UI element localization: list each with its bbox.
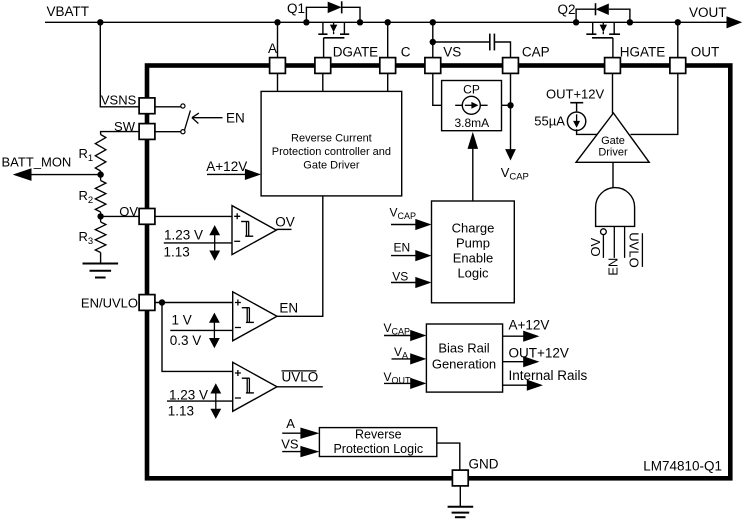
wire rail to pin OUT bbox=[677, 22, 679, 58]
pin HGATE bbox=[605, 58, 621, 74]
wire gate driver to AND gate bbox=[612, 162, 614, 187]
block Bias Rail Generation bbox=[426, 324, 502, 392]
svg-text:VS: VS bbox=[281, 437, 299, 452]
switch EN upper contact bbox=[181, 104, 185, 108]
pin GND bbox=[452, 470, 468, 486]
pin VSNS bbox=[139, 98, 155, 114]
wire UVLO threshold input bbox=[167, 400, 233, 402]
wire pin GND to ground bbox=[459, 486, 461, 507]
pin A bbox=[270, 58, 286, 74]
svg-text:VBATT: VBATT bbox=[47, 4, 90, 19]
pin CAP bbox=[503, 58, 519, 74]
wire rail to pin C bbox=[387, 22, 389, 58]
svg-text:Reverse Current: Reverse Current bbox=[291, 133, 372, 145]
comparator EN bbox=[233, 292, 277, 341]
pin OUT bbox=[670, 58, 686, 74]
wire CPEL to CP (up arrow) bbox=[472, 149, 474, 202]
wire RPL to pin GND bbox=[437, 443, 460, 470]
svg-text:OUT+12V: OUT+12V bbox=[509, 345, 569, 360]
svg-text:3.8mA: 3.8mA bbox=[454, 116, 489, 130]
svg-text:BATT_MON: BATT_MON bbox=[2, 154, 72, 169]
svg-text:Logic: Logic bbox=[457, 265, 489, 280]
svg-text:A+12V: A+12V bbox=[206, 159, 247, 174]
junction R2/R3 (OV tap) bbox=[97, 213, 103, 219]
wire pin DGATE to RCP bbox=[322, 73, 324, 91]
svg-text:OUT+12V: OUT+12V bbox=[546, 87, 604, 102]
svg-text:1.23 V: 1.23 V bbox=[164, 228, 203, 243]
svg-text:55µA: 55µA bbox=[534, 114, 565, 129]
svg-text:C: C bbox=[401, 44, 411, 59]
pin C bbox=[380, 58, 396, 74]
svg-text:CP: CP bbox=[463, 83, 480, 97]
wire VBATT to VSNS bbox=[100, 22, 139, 107]
threshold arrows OV bbox=[214, 235, 216, 251]
wire AND input OV bbox=[602, 235, 604, 258]
svg-text:UVLO: UVLO bbox=[627, 232, 642, 267]
svg-text:OUT: OUT bbox=[691, 44, 720, 59]
junction OUT pin branch bbox=[675, 19, 681, 25]
junction CAP/CP output bbox=[507, 102, 513, 108]
transistor Q2 bbox=[558, 2, 634, 58]
block Reverse Protection Logic bbox=[319, 427, 436, 456]
pin EN/UVLO bbox=[139, 295, 155, 311]
svg-text:VS: VS bbox=[443, 44, 461, 59]
svg-text:OV: OV bbox=[119, 204, 138, 219]
svg-text:Charge: Charge bbox=[452, 220, 495, 235]
svg-text:A+12V: A+12V bbox=[509, 317, 550, 332]
junction EN/UVLO branch bbox=[159, 299, 165, 305]
svg-text:Protection controller and: Protection controller and bbox=[272, 146, 391, 158]
wire current source to gate driver bbox=[577, 129, 598, 134]
svg-text:EN: EN bbox=[605, 258, 620, 276]
wire OV threshold input bbox=[164, 242, 232, 244]
svg-text:1.13: 1.13 bbox=[164, 244, 190, 259]
wire pin A to RCP bbox=[277, 73, 279, 91]
amplifier Gate Driver bbox=[576, 113, 649, 162]
IC boundary LM74810-Q1 bbox=[147, 66, 730, 479]
pin SW bbox=[139, 124, 155, 140]
wire pin CAP down (VCAP) bbox=[510, 73, 512, 150]
comparator OV bbox=[232, 206, 276, 255]
svg-text:GND: GND bbox=[469, 456, 499, 471]
block U1 Reverse Current Protection controller and Gate Driver bbox=[261, 91, 402, 195]
wire pin OUT to gate driver bbox=[631, 73, 678, 134]
svg-text:EN: EN bbox=[279, 300, 298, 315]
gate AND (driver enable) bbox=[596, 188, 635, 227]
svg-text:Generation: Generation bbox=[432, 357, 496, 372]
transistor Q1 bbox=[287, 1, 363, 58]
wire CP output to CAP line bbox=[502, 104, 511, 106]
svg-text:Q2: Q2 bbox=[558, 2, 576, 17]
block CP charge pump 3.8mA bbox=[442, 81, 502, 131]
svg-text:Internal Rails: Internal Rails bbox=[509, 368, 588, 383]
switch EN lower contact bbox=[181, 130, 185, 134]
junction A pin branch bbox=[274, 19, 280, 25]
svg-text:Q1: Q1 bbox=[287, 1, 305, 16]
wire AND input UVLO bbox=[624, 226, 626, 258]
svg-text:OV: OV bbox=[588, 237, 603, 256]
svg-text:VOUT: VOUT bbox=[689, 5, 727, 20]
resistor R3 bbox=[95, 222, 106, 253]
svg-text:CAP: CAP bbox=[522, 44, 550, 59]
resistor R1 bbox=[95, 135, 106, 172]
wire pin EN/UVLO to EN comparator bbox=[155, 302, 233, 304]
node VCAP arrow bbox=[505, 149, 516, 160]
wire rail to pin A bbox=[277, 22, 279, 58]
wire EN comparator output to RCP bbox=[277, 196, 323, 316]
wire VSNS to switch contact bbox=[155, 106, 181, 108]
comparator UVLO bbox=[233, 362, 277, 411]
svg-text:Bias Rail: Bias Rail bbox=[438, 341, 489, 356]
pin DGATE bbox=[315, 58, 331, 74]
svg-text:EN: EN bbox=[394, 240, 411, 254]
wire VBATT rail bbox=[45, 21, 727, 23]
wire pin HGATE to gate driver bbox=[612, 73, 614, 114]
bubble OV input bbox=[601, 229, 607, 235]
block Charge Pump Enable Logic bbox=[432, 201, 515, 303]
junction C pin branch bbox=[385, 19, 391, 25]
wire VOUT arrow bbox=[727, 16, 743, 28]
pin VS bbox=[425, 58, 441, 74]
wire branch to UVLO comparator bbox=[162, 303, 233, 372]
wire EN threshold input bbox=[170, 329, 232, 331]
wire pin C to RCP bbox=[387, 73, 389, 91]
svg-text:EN/UVLO: EN/UVLO bbox=[81, 295, 138, 310]
svg-text:Driver: Driver bbox=[598, 146, 628, 158]
pin OV bbox=[139, 209, 155, 225]
svg-text:0.3 V: 0.3 V bbox=[170, 333, 202, 348]
wire pin OV to comparator bbox=[155, 215, 233, 217]
svg-text:SW: SW bbox=[114, 119, 136, 134]
EN switch label arrow bbox=[192, 113, 223, 123]
capacitor C1 (VS to CAP) bbox=[489, 34, 491, 51]
svg-text:1 V: 1 V bbox=[172, 313, 192, 328]
svg-text:VS: VS bbox=[392, 269, 408, 283]
wire OV comparator output bbox=[276, 228, 291, 230]
svg-text:1.23 V: 1.23 V bbox=[169, 388, 208, 403]
svg-text:HGATE: HGATE bbox=[620, 44, 666, 59]
svg-text:OV: OV bbox=[275, 214, 295, 229]
threshold arrows EN bbox=[213, 322, 215, 338]
ground (divider) bbox=[83, 263, 119, 265]
svg-text:DGATE: DGATE bbox=[333, 44, 379, 59]
svg-text:Pump: Pump bbox=[456, 235, 490, 250]
wire tap to pin OV bbox=[101, 215, 140, 217]
svg-text:Reverse: Reverse bbox=[355, 427, 402, 441]
wire capacitor to pin CAP bbox=[494, 42, 510, 58]
switch lever bbox=[185, 110, 191, 129]
wire rail to pin VS bbox=[432, 22, 434, 58]
wire BATT_MON arrow bbox=[31, 174, 101, 176]
svg-text:LM74810-Q1: LM74810-Q1 bbox=[643, 459, 722, 474]
threshold arrows UVLO bbox=[215, 393, 217, 409]
ground (GND) bbox=[448, 506, 474, 508]
svg-text:A: A bbox=[286, 416, 295, 431]
wire VS branch to capacitor bbox=[430, 39, 436, 45]
svg-text:Protection Logic: Protection Logic bbox=[333, 442, 423, 456]
svg-text:EN: EN bbox=[226, 110, 245, 125]
wire UVLO comparator output bbox=[277, 386, 323, 388]
wire pin VS to CP bbox=[433, 73, 442, 105]
junction R1/R2 (BATT_MON tap) bbox=[97, 171, 103, 177]
svg-text:Gate Driver: Gate Driver bbox=[303, 160, 360, 172]
svg-text:Enable: Enable bbox=[453, 250, 493, 265]
svg-text:1.13: 1.13 bbox=[168, 403, 194, 418]
svg-text:A: A bbox=[268, 41, 277, 56]
current source 55uA bbox=[534, 87, 604, 131]
wire SW to divider bbox=[101, 132, 140, 135]
resistor R2 bbox=[100, 171, 102, 181]
wire AND input EN bbox=[613, 226, 615, 258]
svg-text:VSNS: VSNS bbox=[101, 92, 137, 107]
wire R3 to ground bbox=[100, 253, 102, 264]
svg-text:Gate: Gate bbox=[601, 135, 625, 147]
junction on VBATT rail at divider bbox=[97, 19, 103, 25]
wire SW to switch contact bbox=[155, 131, 181, 133]
